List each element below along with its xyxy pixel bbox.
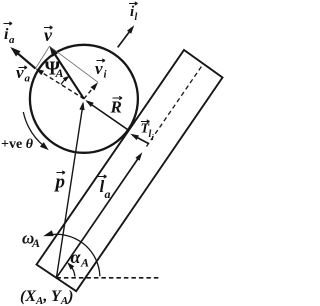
label p accent [57, 171, 66, 174]
svg-text:a: a [9, 34, 15, 46]
vector R arrowhead [85, 100, 93, 107]
svg-text:v: v [95, 59, 103, 78]
label v accent [44, 26, 53, 29]
svg-text:i: i [104, 69, 108, 81]
dashed vector v_i wire [84, 85, 96, 99]
link rod rectangle [37, 50, 223, 291]
vector p wire [56, 104, 83, 278]
vector v wire [52, 49, 84, 99]
dashed component toward L wire [38, 70, 84, 99]
angular velocity omega_A arc [48, 234, 100, 276]
vector l_a wire [56, 155, 140, 278]
svg-text:a: a [105, 187, 111, 201]
svg-text:α: α [71, 247, 82, 267]
label v_a accent [19, 66, 28, 69]
parallelogram thin side T-L [36, 46, 50, 68]
dashed horizontal reference line [56, 277, 159, 279]
svg-text:+ve θ: +ve θ [1, 137, 34, 152]
svg-text:v: v [44, 25, 53, 45]
rod dashed centerline [147, 64, 204, 147]
label i_l accent [129, 2, 138, 5]
dashed component L arrowhead [36, 69, 45, 76]
svg-text:(XA, YA): (XA, YA) [20, 288, 74, 306]
vector v arrowhead [50, 46, 59, 57]
svg-text:A: A [80, 256, 89, 270]
vector T_l wire [133, 135, 149, 144]
positive theta curved arrow [23, 112, 44, 147]
svg-text:A: A [31, 236, 40, 250]
disc circle [30, 45, 138, 153]
vector T_l arrowhead [130, 134, 139, 140]
vector v_a arrowhead [10, 47, 20, 57]
label i_a accent [4, 22, 13, 25]
angle psi_A arc [61, 77, 68, 85]
svg-text:p: p [54, 172, 66, 193]
label T_l accent [141, 120, 150, 123]
vector l_a arrowhead [135, 152, 142, 161]
vector R wire [87, 102, 129, 131]
unit vector i_l wire [118, 28, 132, 47]
svg-text:v: v [16, 63, 24, 82]
angle alpha_A arc [70, 265, 75, 276]
svg-text:l: l [135, 12, 138, 23]
svg-text:R: R [110, 98, 122, 117]
svg-text:A: A [55, 66, 64, 80]
omega_A arc arrowhead [43, 230, 54, 236]
dashed vector v_i arrowhead [91, 82, 99, 90]
parallelogram thin side T-X [50, 46, 99, 82]
alpha_A arc arrowhead [67, 262, 74, 270]
vector v_a / i_a wire [13, 49, 36, 69]
vector p arrowhead [79, 102, 84, 111]
label l_a accent [98, 175, 107, 178]
label v_i accent [97, 59, 106, 62]
unit vector i_l arrowhead [127, 25, 134, 33]
positive theta arrowhead [40, 142, 49, 150]
svg-text:a: a [25, 73, 31, 85]
label R accent [113, 96, 123, 99]
angle psi_A arc arrowhead [63, 76, 70, 82]
svg-text:i: i [152, 133, 155, 142]
